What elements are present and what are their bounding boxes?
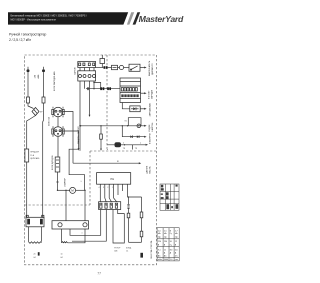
- rectifier block VD (D~): [52, 155, 60, 172]
- wire socket chain: [57, 117, 59, 127]
- fuse F1 label: [30, 152, 40, 160]
- svg-text:НАПРЯЖ.: НАПРЯЖ.: [151, 122, 154, 132]
- diode line wire: [122, 125, 145, 137]
- socket XS1 220V: [52, 107, 64, 117]
- svg-text:L: L: [81, 181, 82, 183]
- schematic outer dashed frame: [25, 55, 157, 265]
- connector X1 4-pin lower: [78, 68, 96, 82]
- svg-text:ИНДИК.: ИНДИК.: [149, 124, 151, 132]
- svg-text:230: 230: [164, 241, 167, 243]
- wire U1 right branch: [128, 184, 142, 197]
- connector plug XP1: [32, 108, 43, 116]
- svg-text:БЛОК ДИОДОВ: БЛОК ДИОДОВ: [52, 155, 54, 170]
- svg-text:3: 3: [103, 187, 104, 189]
- bypass loop: [128, 118, 141, 126]
- labels above dashed: [107, 142, 141, 150]
- svg-text:11: 11: [164, 249, 166, 251]
- svg-text:кВт: кВт: [175, 233, 178, 235]
- diode VD3: [137, 135, 139, 138]
- svg-text:ЦЕПИ АКБ: ЦЕПИ АКБ: [30, 157, 40, 160]
- svg-text:К ВЫПРЯМ.: К ВЫПРЯМ.: [149, 132, 151, 144]
- svg-text:кВт: кВт: [158, 233, 161, 235]
- sensor wire Zh: [73, 161, 141, 164]
- svg-text:РН: РН: [111, 177, 115, 181]
- connector pair dark 2: [107, 87, 111, 90]
- wire to exciter winding left: [65, 190, 67, 220]
- capacitor column C2: [140, 197, 143, 242]
- label sensor output: [145, 165, 151, 174]
- svg-text:9,1: 9,1: [158, 249, 161, 251]
- inductor TX: [115, 142, 122, 147]
- capacitor column C1: [127, 196, 130, 242]
- wire pin1 down: [79, 81, 80, 151]
- svg-text:КОНД.: КОНД.: [126, 247, 132, 249]
- fuse holder 2: [42, 97, 45, 103]
- wire pin2 down: [84, 81, 86, 89]
- wire socket2 drop: [63, 131, 79, 149]
- oil sensor feed box: [100, 55, 105, 68]
- label charge output: [149, 89, 154, 99]
- wire pin4 to bus: [93, 81, 100, 89]
- svg-text:ДВИГАТЕЛЯ: ДВИГАТЕЛЯ: [151, 63, 154, 75]
- svg-text:ЩИТОК: ЩИТОК: [75, 67, 77, 75]
- svg-text:Ж: Ж: [117, 161, 119, 163]
- svg-text:04: 04: [61, 257, 63, 259]
- wire: [26, 162, 28, 217]
- logo swoosh stripe 2: [133, 12, 141, 24]
- svg-text:ОБМОТКА СТАТОРА: ОБМОТКА СТАТОРА: [150, 240, 153, 259]
- socket XS2 220V: [52, 126, 64, 136]
- arrow diode output: [144, 108, 146, 110]
- wire minus long: [42, 103, 45, 217]
- svg-text:Ручной / электростартер: Ручной / электростартер: [9, 32, 46, 36]
- svg-text:об/м: об/м: [158, 259, 163, 261]
- wire battery plus: [27, 72, 29, 97]
- wire: [27, 116, 36, 150]
- svg-text:БЛОК ЗАРЯДКИ АКБ: БЛОК ЗАРЯДКИ АКБ: [53, 71, 56, 91]
- node: [124, 144, 125, 145]
- svg-text:04: 04: [34, 257, 36, 259]
- control bus wire: [86, 88, 120, 90]
- exciter winding wires: [62, 229, 86, 243]
- logo swoosh stripe 1: [127, 12, 134, 24]
- svg-text:я: я: [82, 233, 83, 235]
- resistor R2 ticks: [127, 205, 129, 209]
- svg-text:ЗАРЯДКИ: ЗАРЯДКИ: [151, 89, 154, 99]
- wire rect out 1: [70, 210, 101, 236]
- inner dashed boundary horizontal: [90, 150, 157, 152]
- svg-text:MasterYard: MasterYard: [139, 14, 184, 24]
- connector X1 4-pin upper: [78, 62, 96, 68]
- terminal mark: [140, 253, 143, 258]
- fuse F2: [112, 65, 118, 69]
- svg-text:ВЫКЛЮЧАТЕЛЬ: ВЫКЛЮЧАТЕЛЬ: [148, 60, 151, 76]
- svg-text:2,0: 2,0: [158, 230, 161, 232]
- slip ring assembly L2: [52, 221, 89, 235]
- transformer feed wire: [107, 144, 146, 146]
- svg-text:MGY 8000EP - Инструкция пользо: MGY 8000EP - Инструкция пользователя: [11, 20, 57, 22]
- wire rectifier to node: [56, 172, 58, 191]
- connector tick pair: [87, 87, 88, 90]
- wire pin3 down with arrow: [89, 81, 91, 117]
- svg-text:К БЛОКУ: К БЛОКУ: [149, 90, 151, 99]
- svg-text:2: 2: [107, 187, 108, 189]
- wire: [28, 103, 34, 109]
- wire K1 to diode: [122, 103, 130, 109]
- wire: [108, 67, 112, 69]
- svg-text:ЗАРЯДКА АКБ: ЗАРЯДКА АКБ: [148, 102, 151, 116]
- svg-text:а: а: [107, 149, 108, 151]
- arrow output switch: [144, 67, 146, 69]
- svg-text:2 / 2,5 / 2,7 кВт: 2 / 2,5 / 2,7 кВт: [9, 38, 31, 42]
- arrow charge output: [144, 92, 146, 94]
- svg-text:ДАТЧИК: ДАТЧИК: [145, 165, 148, 174]
- voltage regulator U1: [97, 173, 131, 185]
- page background: [0, 0, 200, 283]
- rectifier assembly VD4-VD7: [99, 202, 121, 210]
- svg-text:1ф: 1ф: [175, 235, 178, 238]
- connector pair dark: [100, 87, 104, 90]
- label battery 12V: [35, 74, 40, 78]
- node: [93, 88, 94, 89]
- label indicator output: [149, 122, 154, 132]
- capacitor bottom bus: [129, 241, 142, 243]
- svg-text:77: 77: [97, 272, 101, 276]
- wire: [76, 189, 85, 191]
- dropper resistor R1: [80, 125, 102, 151]
- svg-text:50: 50: [170, 241, 172, 243]
- table 1 cell marks: [161, 185, 179, 210]
- tick down: [132, 145, 134, 150]
- label winding 2: [61, 254, 63, 260]
- diode VD1 box: [130, 106, 140, 112]
- header dark bar: [8, 12, 128, 24]
- starter motor M1: [70, 187, 76, 193]
- svg-text:1,0: 1,0: [170, 259, 173, 261]
- inner dashed boundary vertical (control panel): [106, 55, 108, 151]
- svg-text:2я: 2я: [34, 254, 36, 256]
- svg-text:2,7: 2,7: [175, 230, 178, 232]
- control unit K1: [120, 78, 141, 103]
- svg-text:Бензиновый генератор MGY 3000E: Бензиновый генератор MGY 3000E / MGY 300…: [11, 14, 88, 17]
- table 2 specifications: [157, 228, 179, 261]
- table 1 switch positions: [160, 184, 179, 210]
- wire rect loop rotor: [113, 210, 124, 244]
- svg-text:ПРЕДОХР.: ПРЕДОХР.: [30, 152, 39, 154]
- wire socket2 to rectifier box: [57, 136, 59, 157]
- table 2 cell text: [158, 230, 178, 261]
- diode VD2: [130, 135, 132, 138]
- wire to slip ring right: [84, 190, 86, 220]
- label engine switch: [148, 60, 154, 76]
- connector pair: [104, 66, 108, 69]
- svg-text:4: 4: [99, 187, 100, 189]
- wire socket1 to sensor line: [63, 112, 73, 164]
- svg-text:1я: 1я: [61, 254, 63, 256]
- svg-text:0,6: 0,6: [175, 249, 178, 251]
- wire: [118, 67, 120, 69]
- svg-text:cos: cos: [175, 259, 178, 261]
- svg-text:Л1: Л1: [125, 121, 127, 123]
- fuse holder 1: [27, 97, 30, 103]
- wire rect out 2: [72, 210, 106, 242]
- svg-text:1: 1: [112, 187, 113, 189]
- svg-text:8,3: 8,3: [170, 249, 173, 251]
- inner dashed boundary horizontal (generator): [25, 204, 91, 206]
- pilot lamp HL2: [137, 124, 141, 128]
- wire: [140, 108, 144, 110]
- label winding 1: [34, 252, 40, 259]
- armature winding block L1: [26, 215, 44, 243]
- svg-text:2,5: 2,5: [164, 230, 167, 232]
- arrow tx output: [146, 144, 148, 146]
- wire battery minus: [43, 72, 45, 97]
- svg-text:12: 12: [175, 241, 177, 243]
- label capacitor: [126, 247, 132, 252]
- wire ignition chain: [96, 67, 104, 69]
- wire starter bus: [58, 189, 70, 191]
- svg-text:б: б: [123, 142, 124, 144]
- node: [65, 190, 66, 191]
- battery terminal node 1: [27, 67, 30, 73]
- svg-text:С1: С1: [126, 250, 128, 252]
- indicator lamp HL1: [119, 65, 123, 69]
- arrow down: [78, 148, 80, 150]
- wire: [124, 67, 129, 69]
- label rotor: [114, 247, 121, 252]
- wire to output: [140, 67, 145, 69]
- node: [127, 125, 128, 126]
- svg-text:220: 220: [158, 241, 161, 243]
- fuse F1: [25, 149, 29, 162]
- svg-text:СТАРТЕР: СТАРТЕР: [64, 177, 67, 187]
- regulator pins: [99, 184, 123, 202]
- battery terminal node 2: [42, 67, 45, 73]
- svg-text:в: в: [140, 142, 141, 144]
- starter relay enclosure: [64, 149, 85, 190]
- arrow indicator output: [144, 125, 146, 127]
- wire charge output: [141, 92, 145, 94]
- indicator bus wire: [80, 125, 145, 127]
- svg-text:РОТОР: РОТОР: [114, 247, 121, 249]
- svg-text:220В 16А: 220В 16А: [47, 117, 50, 126]
- engine stop switch S1: [129, 64, 140, 71]
- svg-text:3000: 3000: [164, 259, 168, 261]
- svg-text:1ф: 1ф: [158, 235, 161, 238]
- label tx: [123, 148, 138, 150]
- svg-text:МАСЛА: МАСЛА: [148, 166, 151, 174]
- arrow rectifier output: [144, 136, 146, 138]
- node: [84, 190, 85, 191]
- svg-text:1ф: 1ф: [164, 235, 167, 238]
- svg-text:кВт: кВт: [164, 233, 167, 235]
